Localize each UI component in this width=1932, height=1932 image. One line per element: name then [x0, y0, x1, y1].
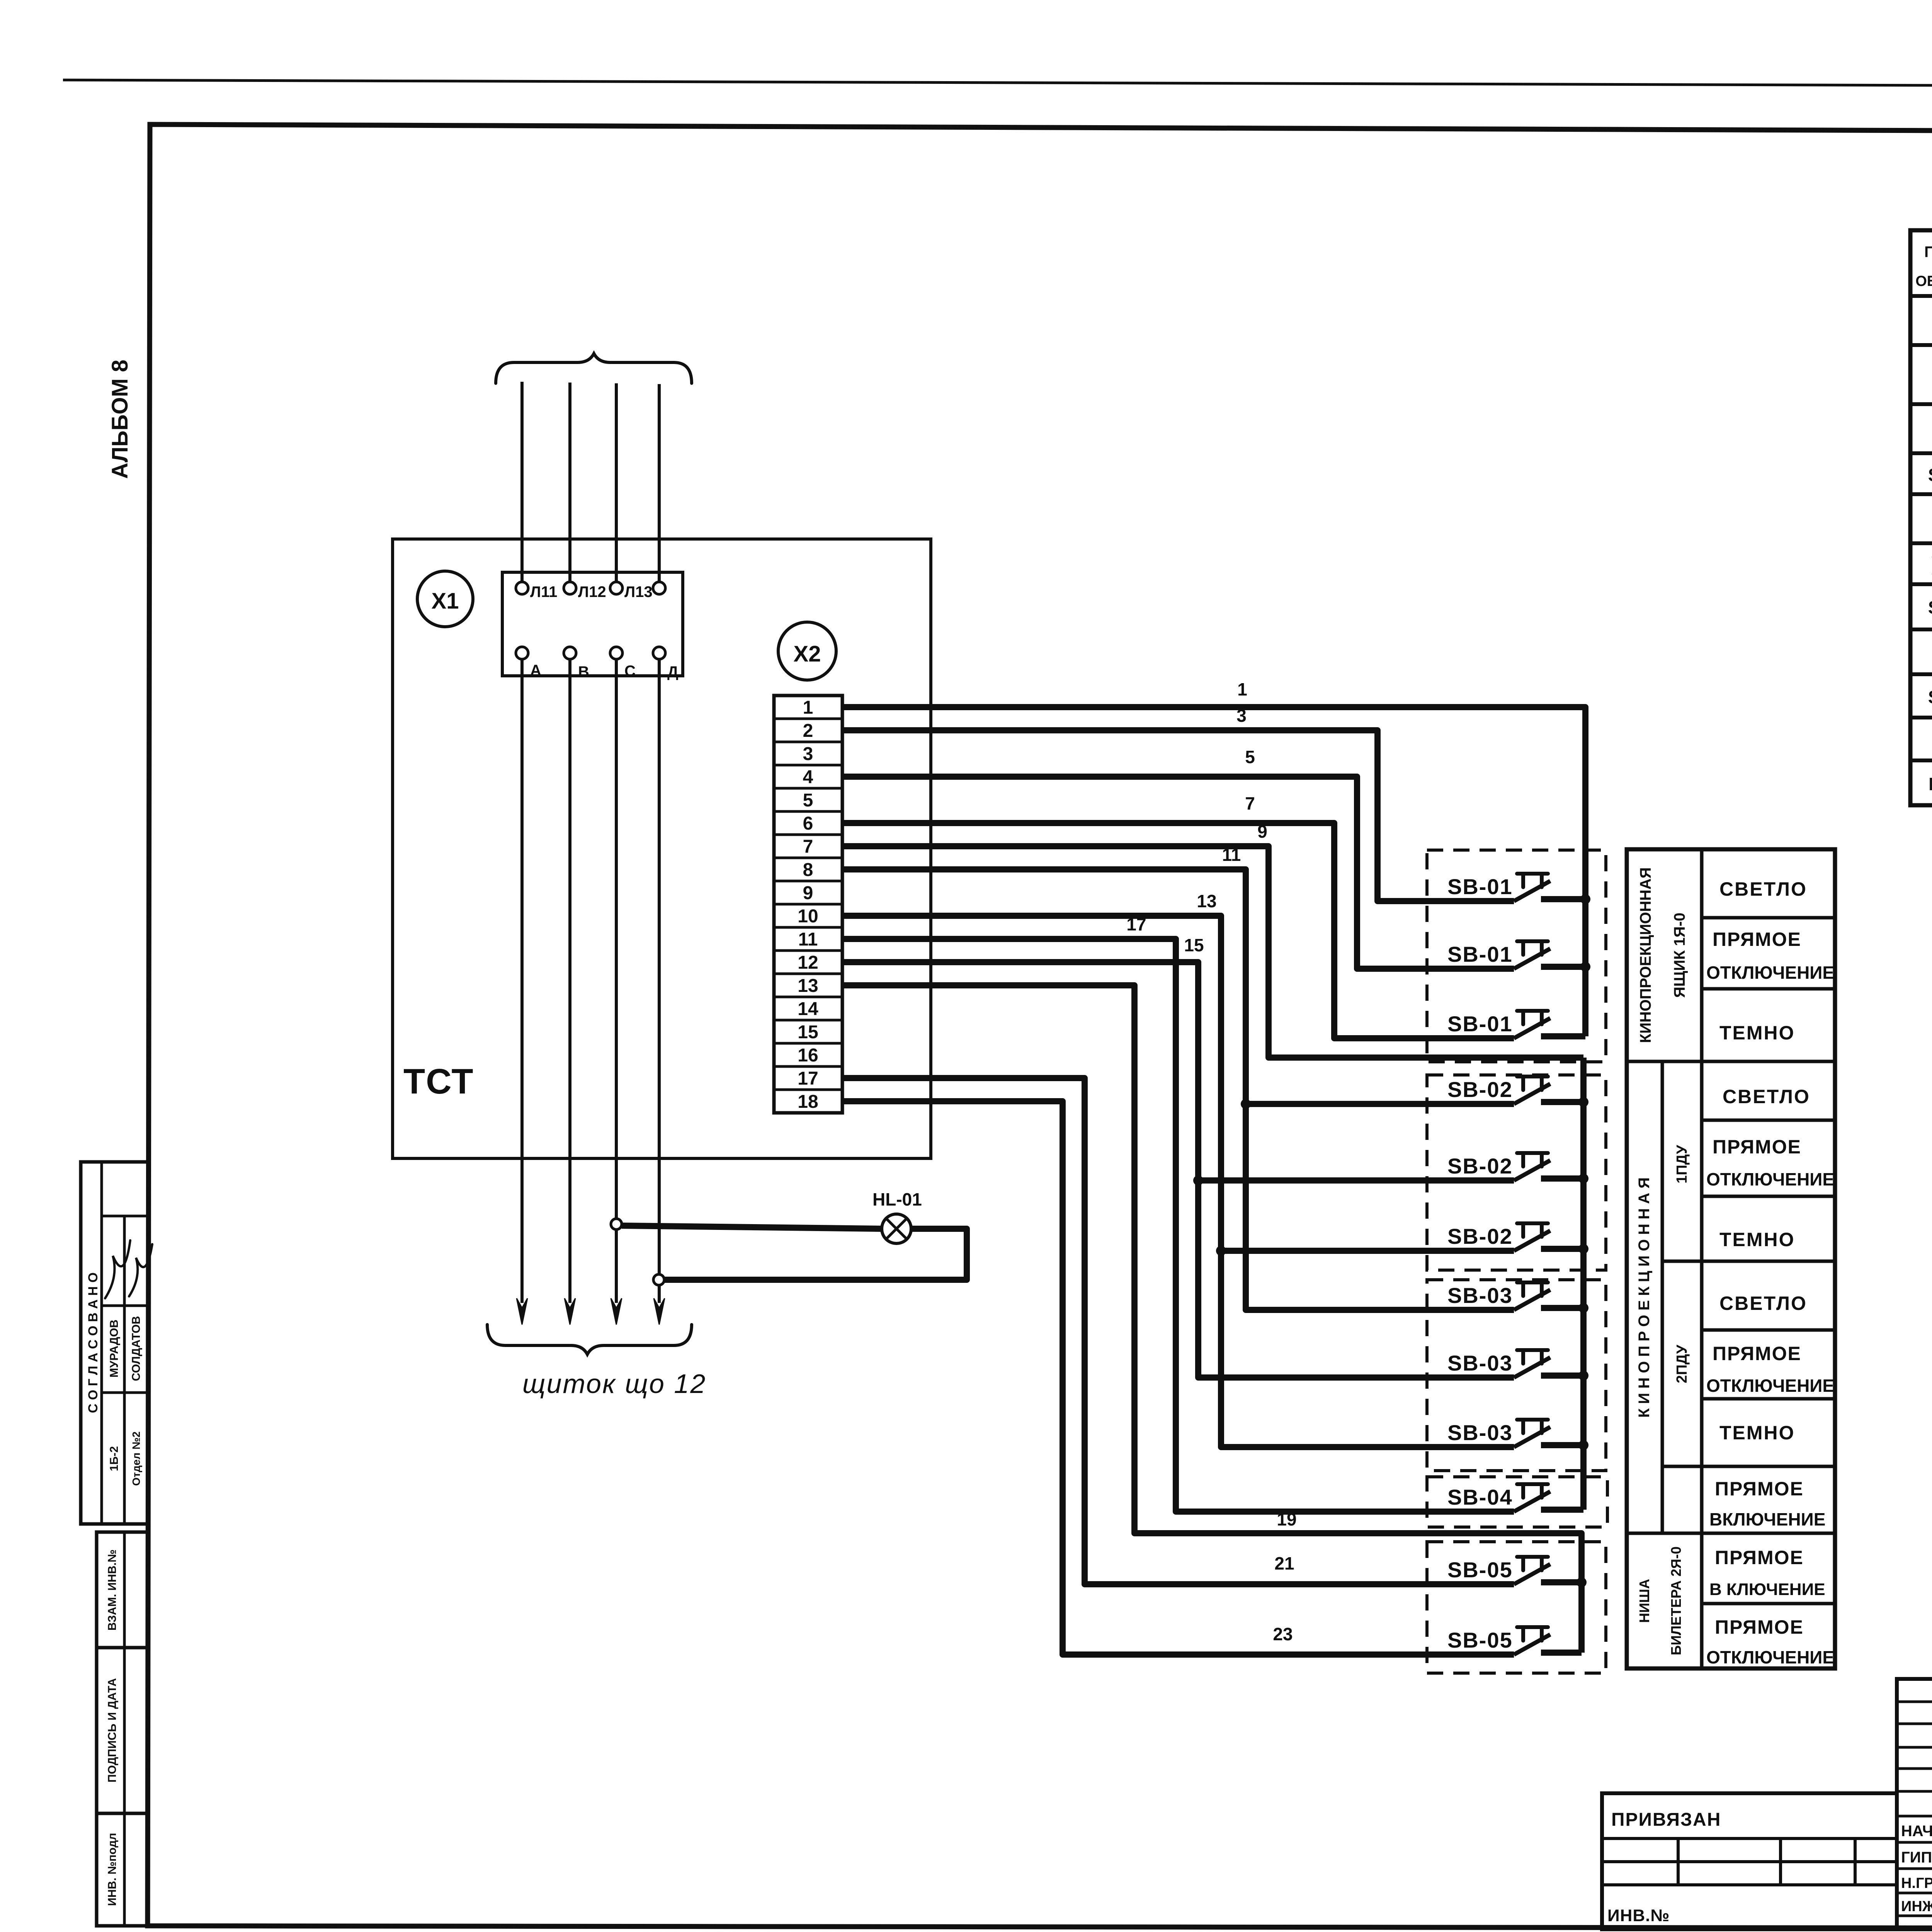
- svg-text:Л12: Л12: [578, 583, 606, 600]
- svg-text:В КЛЮЧЕНИЕ: В КЛЮЧЕНИЕ: [1709, 1580, 1825, 1599]
- svg-text:13: 13: [1197, 891, 1216, 911]
- svg-text:ПОЗИЦ.: ПОЗИЦ.: [1924, 243, 1932, 260]
- terminal strip X2 designator circle: [778, 622, 836, 680]
- title block: привязан box: [1602, 1793, 1897, 1929]
- svg-text:ПРЯМОЕ: ПРЯМОЕ: [1713, 1136, 1801, 1158]
- svg-text:КИНОПРОЕКЦИОННАЯ: КИНОПРОЕКЦИОННАЯ: [1637, 867, 1654, 1043]
- signature rows: [1901, 1820, 1932, 1915]
- junctions on SB-02/SB-03 bus: [1578, 1097, 1588, 1450]
- svg-text:SB-01: SB-01: [1447, 874, 1513, 899]
- svg-text:ПРЯМОЕ: ПРЯМОЕ: [1715, 1547, 1804, 1568]
- svg-text:16: 16: [798, 1045, 818, 1066]
- svg-text:2: 2: [803, 721, 813, 741]
- svg-text:ГИП: ГИП: [1901, 1849, 1932, 1866]
- svg-text:ПРЯМОЕ: ПРЯМОЕ: [1715, 1478, 1804, 1500]
- svg-text:НАЧ.ОТД: НАЧ.ОТД: [1901, 1823, 1932, 1840]
- svg-text:ИНЖЕН .: ИНЖЕН .: [1901, 1898, 1932, 1915]
- svg-text:С: С: [624, 663, 636, 680]
- svg-text:ИНВ. №подл: ИНВ. №подл: [106, 1833, 119, 1906]
- enclosure box ящик 1Я-0 (SB-01 group): [1427, 850, 1606, 1062]
- svg-text:SB-02: SB-02: [1447, 1224, 1513, 1248]
- svg-text:19: 19: [1277, 1509, 1296, 1529]
- svg-text:2ПДУ: 2ПДУ: [1674, 1345, 1690, 1383]
- svg-text:SB-04: SB-04: [1447, 1485, 1513, 1509]
- svg-text:1: 1: [1237, 679, 1247, 699]
- svg-text:БИЛЕТЕРА 2Я-0: БИЛЕТЕРА 2Я-0: [1668, 1546, 1684, 1655]
- svg-text:4: 4: [803, 767, 813, 787]
- svg-text:МУРАДОВ: МУРАДОВ: [108, 1320, 121, 1378]
- pushbutton SB-02 (3): [1447, 1223, 1583, 1251]
- incoming supply wires (4) above X1: [522, 382, 659, 582]
- wire label 21: [1274, 1553, 1294, 1573]
- svg-text:НL-01: НL-01: [872, 1189, 922, 1209]
- wire 11 (X2:8 to SB-02.1 and SB-03.1 inputs): [842, 869, 1514, 1310]
- junction wire 15 / SB-02.2: [1193, 1175, 1203, 1185]
- svg-text:ОБОЗНАЧ.: ОБОЗНАЧ.: [1915, 273, 1932, 289]
- left stamp: ВЗАМ. ИНВ.№: [97, 1532, 148, 1648]
- wire 13 (X2:10 to SB-02.3 and SB-03.3 inputs): [842, 916, 1514, 1447]
- svg-text:SB-01: SB-01: [1928, 465, 1932, 485]
- svg-text:СВЕТЛО: СВЕТЛО: [1719, 878, 1807, 900]
- function label table grid: [1627, 849, 1835, 1668]
- pushbutton SB-04: [1447, 1484, 1583, 1512]
- svg-text:1: 1: [803, 697, 813, 718]
- wire label 7: [1245, 793, 1255, 813]
- item SB-02 SB-03: [1931, 546, 1932, 582]
- bottom brace under feeder arrows: [487, 1325, 692, 1354]
- svg-text:SB-05: SB-05: [1928, 687, 1932, 707]
- component list table grid: [1910, 230, 1932, 805]
- svg-text:15: 15: [798, 1022, 818, 1043]
- svg-text:12: 12: [798, 952, 818, 973]
- pushbutton SB-02 (1): [1447, 1077, 1583, 1104]
- svg-text:ТСТ: ТСТ: [403, 1062, 474, 1101]
- svg-text:18: 18: [798, 1092, 818, 1112]
- wire 5 (X2:4 to SB-01.2 input): [842, 777, 1514, 969]
- pushbutton SB-01 (3): [1447, 1011, 1585, 1038]
- label HL-01: [872, 1189, 922, 1209]
- wire 7 (X2:6 to SB-01.3 input): [842, 823, 1514, 1038]
- svg-text:Н.ГР.ИНЖ: Н.ГР.ИНЖ: [1901, 1875, 1932, 1891]
- left stamp: ИНВ.№ подл: [97, 1813, 148, 1926]
- junction wire 11 / SB-02.1: [1241, 1099, 1251, 1109]
- svg-text:ПОДПИСЬ И ДАТА: ПОДПИСЬ И ДАТА: [106, 1678, 119, 1782]
- svg-text:11: 11: [798, 929, 818, 950]
- album label АЛЬБОМ 8: [107, 360, 133, 479]
- svg-text:6: 6: [803, 813, 813, 834]
- connector X1 designator circle: [417, 571, 473, 627]
- svg-text:SB-01: SB-01: [1447, 1012, 1513, 1036]
- feeder destination label щиток ЩО 12: [522, 1369, 706, 1399]
- svg-text:11: 11: [1222, 845, 1241, 865]
- X1 top pins Л11 Л12 Л13: [516, 582, 665, 600]
- junction wire 13 / SB-02.3: [1216, 1246, 1226, 1256]
- svg-text:5: 5: [1245, 747, 1255, 767]
- wire label 9: [1257, 821, 1267, 842]
- svg-text:SB-05: SB-05: [1447, 1558, 1513, 1582]
- svg-text:АЛЬБОМ 8: АЛЬБОМ 8: [107, 360, 133, 479]
- pushbutton SB-01 (2): [1447, 941, 1585, 969]
- svg-text:7: 7: [803, 837, 813, 857]
- svg-text:К И Н О П Р О Е К Ц И О Н Н А: К И Н О П Р О Е К Ц И О Н Н А Я: [1636, 1177, 1653, 1418]
- pushbutton SB-05 (2): [1447, 1627, 1582, 1655]
- X1 bottom pins A B C D: [516, 647, 679, 680]
- pushbutton SB-01 (1): [1447, 874, 1585, 901]
- pushbutton SB-03 (2): [1447, 1350, 1583, 1378]
- svg-text:3: 3: [1236, 706, 1247, 726]
- title block: central signature grid: [1897, 1679, 1932, 1929]
- svg-text:X1: X1: [432, 588, 459, 614]
- svg-text:ТЕМНО: ТЕМНО: [1719, 1022, 1795, 1044]
- room label кинопроекционная (1ПДУ/2ПДУ): [1636, 1145, 1690, 1418]
- room label ниша билетера 2Я-0: [1636, 1546, 1684, 1655]
- outgoing feeder wires A B C D with arrows to panel: [517, 659, 665, 1325]
- wire label 13: [1197, 891, 1216, 911]
- svg-text:SB-02: SB-02: [1447, 1077, 1513, 1102]
- wire 23 (X2:18 to SB-05.2 input): [842, 1101, 1514, 1655]
- svg-text:Л13: Л13: [624, 583, 653, 600]
- wire label 23: [1273, 1624, 1293, 1644]
- svg-text:ПРЯМОЕ: ПРЯМОЕ: [1713, 1343, 1801, 1364]
- svg-text:ОТКЛЮЧЕНИЕ: ОТКЛЮЧЕНИЕ: [1706, 1647, 1834, 1667]
- svg-text:щиток що 12: щиток що 12: [522, 1369, 706, 1399]
- svg-text:7: 7: [1245, 793, 1255, 813]
- wire C tap to lamp HL-01: [622, 1226, 882, 1229]
- item HL-01: signal lamp: [1929, 774, 1932, 796]
- svg-text:Д: Д: [667, 663, 679, 680]
- room label кинопроекционная ящик 1Я-0: [1637, 867, 1688, 1043]
- svg-text:ИНВ.№: ИНВ.№: [1607, 1906, 1670, 1925]
- wire 15 (X2:12 to SB-02.2 and SB-03.2 inputs): [842, 962, 1514, 1378]
- svg-text:15: 15: [1184, 935, 1204, 955]
- common bus SB-02/SB-03/SB-04 (wire 9): [1580, 1058, 1587, 1510]
- svg-text:ПРЯМОЕ: ПРЯМОЕ: [1713, 929, 1801, 950]
- svg-text:9: 9: [803, 883, 813, 903]
- svg-text:СОЛДАТОВ: СОЛДАТОВ: [130, 1316, 143, 1381]
- lamp return wire to phase D: [664, 1229, 967, 1280]
- svg-text:СВЕТЛО: СВЕТЛО: [1719, 1293, 1807, 1314]
- wire label 3: [1236, 706, 1247, 726]
- svg-text:ВЗАМ. ИНВ.№: ВЗАМ. ИНВ.№: [106, 1549, 119, 1631]
- pushbutton SB-03 (3): [1447, 1420, 1583, 1447]
- enclosure box SB-03 group: [1427, 1280, 1606, 1471]
- svg-text:17: 17: [798, 1068, 818, 1089]
- terminal strip X2 (18 terminals): [774, 696, 842, 1113]
- svg-text:17: 17: [1126, 914, 1146, 934]
- svg-text:SB-05: SB-05: [1447, 1628, 1513, 1652]
- item SB-05: [1928, 687, 1932, 709]
- wire 3 (X2:2 to SB-01.1 input): [842, 730, 1514, 901]
- dimmer cabinet TCT box: [393, 539, 931, 1158]
- label TCT: [403, 1062, 474, 1101]
- svg-text:10: 10: [798, 906, 818, 927]
- svg-text:SB-02: SB-02: [1447, 1154, 1513, 1178]
- tap junction on phase D: [653, 1274, 664, 1285]
- pushbutton SB-03 (1): [1447, 1282, 1583, 1310]
- junction SB-01 bus taps: [1580, 894, 1590, 972]
- svg-text:А: А: [530, 662, 541, 679]
- item SB-04: [1928, 597, 1932, 619]
- enclosure box SB-02 group: [1427, 1075, 1606, 1270]
- wire 17 (X2:11 to SB-04 input): [842, 939, 1514, 1512]
- item SB-01: [1928, 464, 1932, 487]
- table headers: [1915, 243, 1932, 289]
- svg-text:SB-04: SB-04: [1928, 597, 1932, 617]
- enclosure box SB-04: [1427, 1477, 1607, 1527]
- signal lamp HL-01: [882, 1214, 911, 1243]
- connector X1 terminal box: [502, 572, 683, 676]
- svg-text:СВЕТЛО: СВЕТЛО: [1723, 1086, 1810, 1107]
- svg-text:X2: X2: [794, 641, 821, 667]
- svg-text:С О Г Л А С О В А Н О: С О Г Л А С О В А Н О: [86, 1272, 100, 1413]
- svg-text:Отдел №2: Отдел №2: [130, 1432, 142, 1486]
- svg-text:3: 3: [803, 744, 813, 764]
- svg-text:SB-03: SB-03: [1447, 1283, 1513, 1308]
- svg-text:9: 9: [1257, 821, 1267, 842]
- svg-text:ОТКЛЮЧЕНИЕ: ОТКЛЮЧЕНИЕ: [1706, 963, 1834, 983]
- svg-text:ПРЯМОЕ: ПРЯМОЕ: [1715, 1616, 1804, 1638]
- svg-text:21: 21: [1274, 1553, 1294, 1573]
- wire 1 (X2:1 to SB-01 common bus): [842, 707, 1585, 1036]
- svg-text:ПРИВЯЗАН: ПРИВЯЗАН: [1611, 1810, 1721, 1830]
- svg-text:14: 14: [798, 999, 818, 1019]
- svg-text:8: 8: [803, 860, 813, 880]
- function labels column: [1706, 878, 1834, 1667]
- wire 9 (X2:7 to SB-02/SB-03/SB-04 common bus): [842, 846, 1583, 1058]
- svg-text:ЯЩИК 1Я-0: ЯЩИК 1Я-0: [1671, 913, 1688, 998]
- tap junction on phase C: [611, 1219, 622, 1230]
- wire label 15: [1184, 935, 1204, 955]
- svg-text:1Б-2: 1Б-2: [108, 1446, 121, 1471]
- top brace over supply wires: [496, 354, 692, 383]
- left stamp: СОГЛАСОВАНО block: [81, 1162, 152, 1524]
- svg-text:SB-03: SB-03: [1447, 1420, 1513, 1445]
- wire label 1: [1237, 679, 1247, 699]
- pushbutton SB-02 (2): [1447, 1153, 1583, 1180]
- wire 19 (X2:13 to SB-05 common bus): [842, 985, 1582, 1653]
- svg-text:SB-03: SB-03: [1447, 1351, 1513, 1375]
- enclosure box ящик 2Я-0 (SB-05 group): [1427, 1542, 1606, 1673]
- wire label 5: [1245, 747, 1255, 767]
- svg-text:1ПДУ: 1ПДУ: [1674, 1145, 1690, 1184]
- svg-text:13: 13: [798, 976, 818, 996]
- junction SB-05 bus tap: [1577, 1577, 1587, 1587]
- svg-text:5: 5: [803, 790, 813, 811]
- wire label 19: [1277, 1509, 1296, 1529]
- svg-text:ОТКЛЮЧЕНИЕ: ОТКЛЮЧЕНИЕ: [1706, 1376, 1834, 1396]
- svg-text:23: 23: [1273, 1624, 1293, 1644]
- wire label 11: [1222, 845, 1241, 865]
- svg-text:SB-01: SB-01: [1447, 942, 1513, 966]
- svg-text:Л11: Л11: [530, 583, 557, 600]
- svg-text:ТЕМНО: ТЕМНО: [1719, 1422, 1795, 1444]
- svg-text:В: В: [578, 663, 589, 680]
- svg-text:НИША: НИША: [1636, 1579, 1652, 1623]
- pushbutton SB-05 (1): [1447, 1557, 1582, 1584]
- svg-text:ТЕМНО: ТЕМНО: [1719, 1229, 1795, 1250]
- svg-text:НL-01: НL-01: [1929, 774, 1932, 794]
- wire label 17: [1126, 914, 1146, 934]
- wire 21 (X2:17 to SB-05.1 input): [842, 1078, 1514, 1584]
- left stamp: ПОДПИСЬ И ДАТА: [97, 1648, 148, 1813]
- svg-text:ОТКЛЮЧЕНИЕ: ОТКЛЮЧЕНИЕ: [1706, 1169, 1834, 1189]
- svg-text:ВКЛЮЧЕНИЕ: ВКЛЮЧЕНИЕ: [1709, 1509, 1825, 1529]
